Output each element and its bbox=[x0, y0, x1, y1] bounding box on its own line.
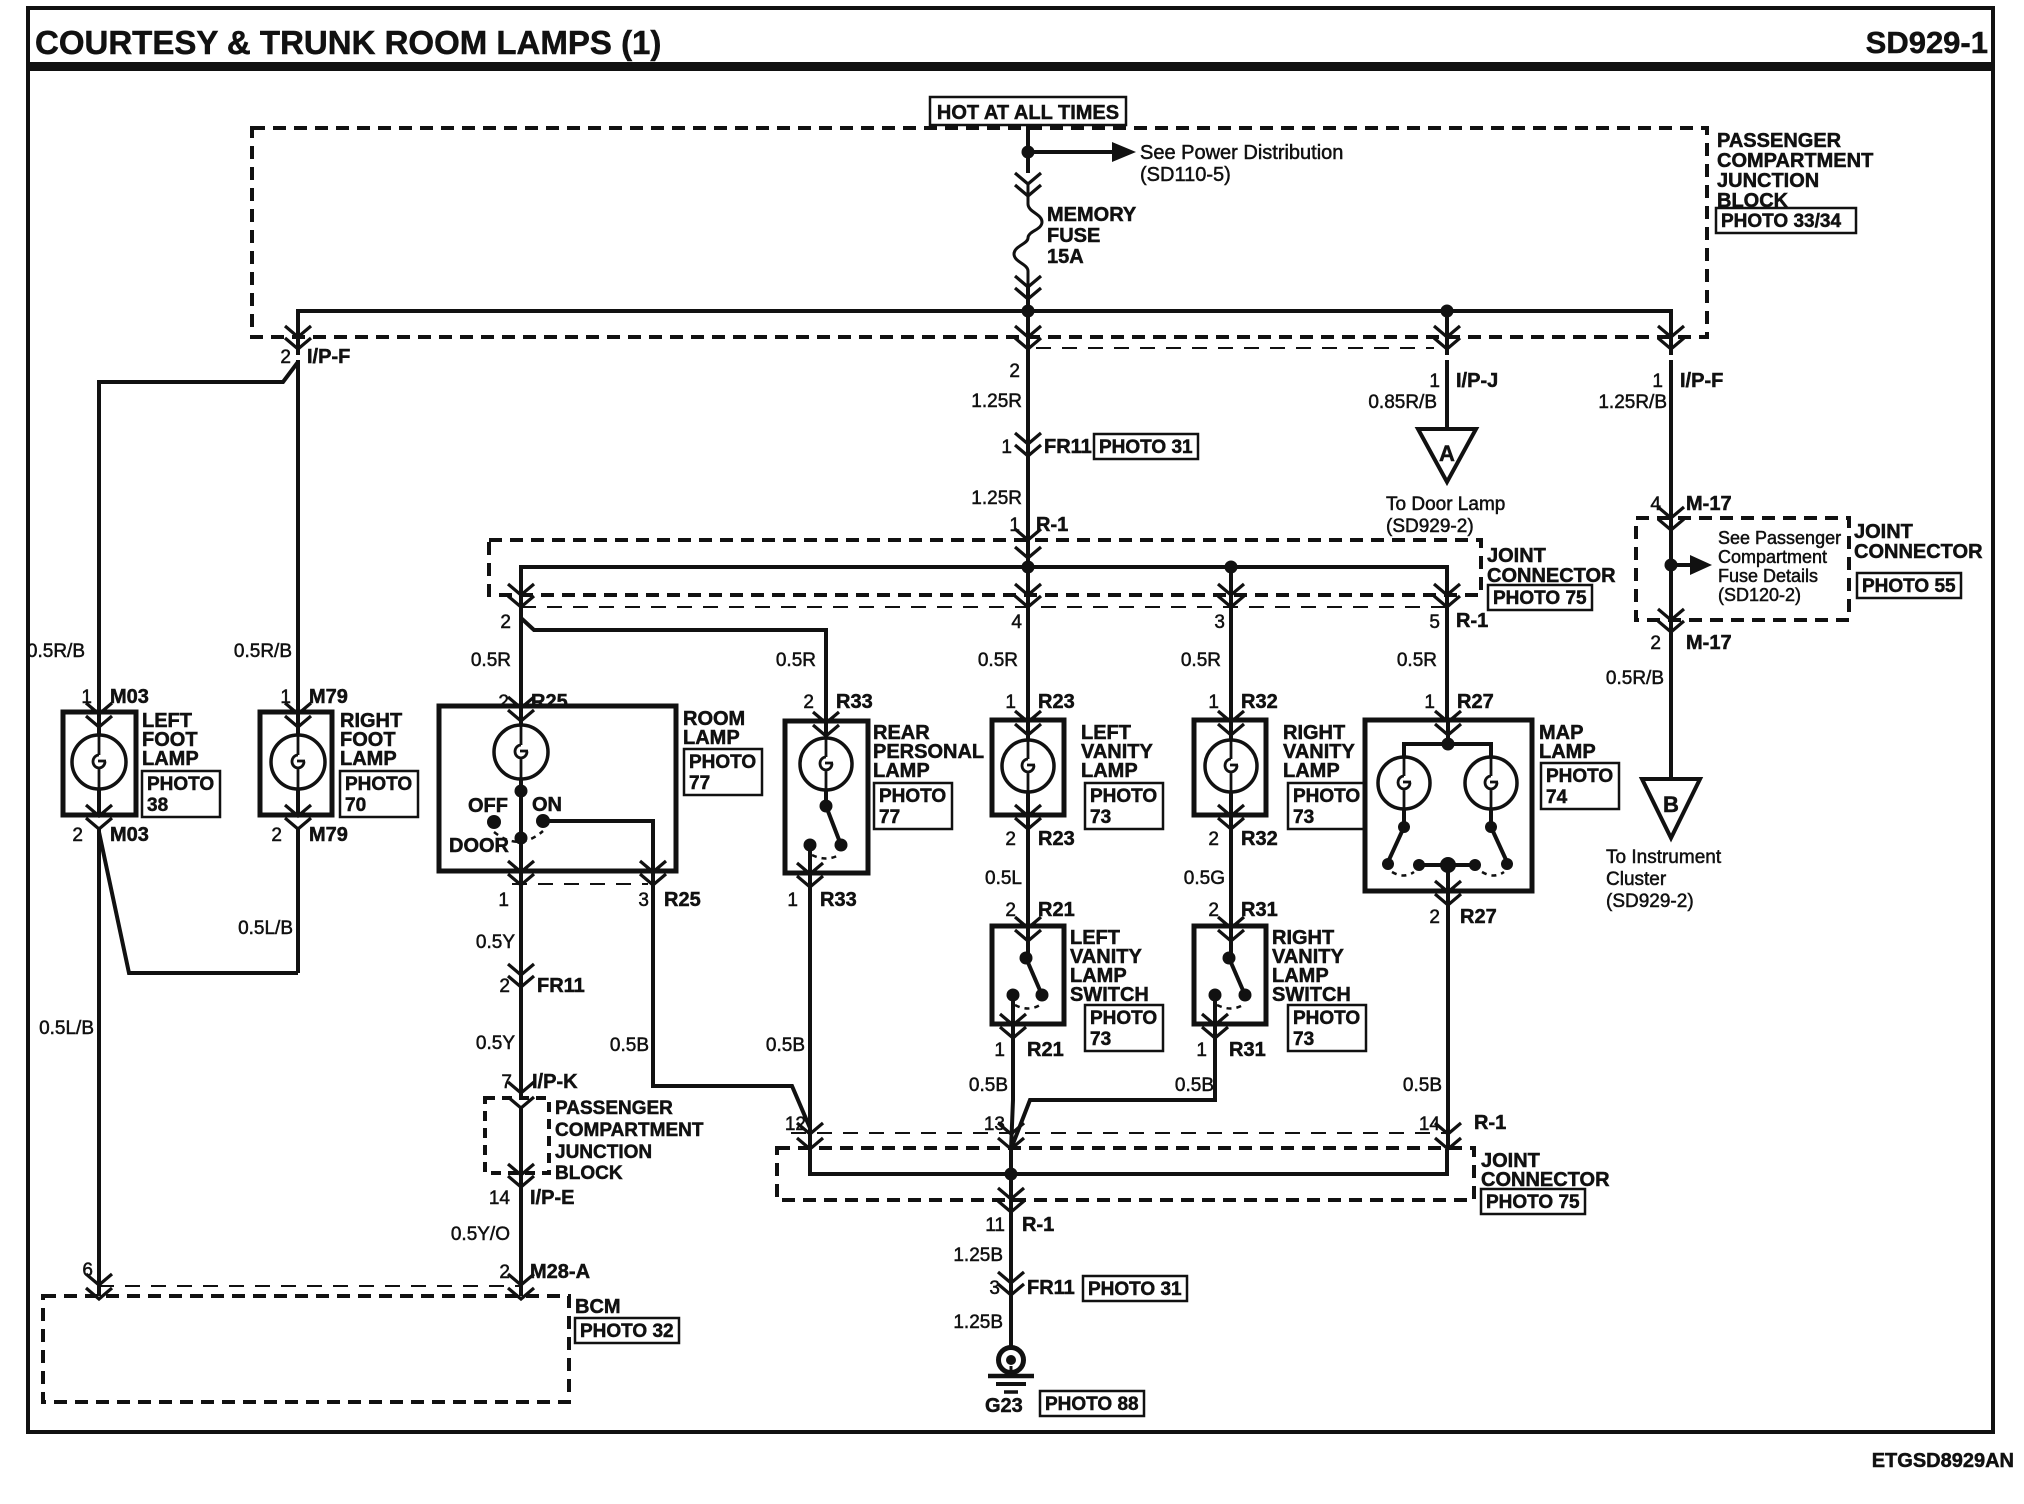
svg-text:0.5Y/O: 0.5Y/O bbox=[451, 1224, 510, 1245]
joint connector dashed box (bottom) bbox=[777, 1148, 1474, 1200]
svg-text:0.5G: 0.5G bbox=[1184, 868, 1225, 889]
room pin1 wire bbox=[519, 838, 523, 871]
svg-text:JOINT: JOINT bbox=[1854, 521, 1913, 543]
svg-text:SWITCH: SWITCH bbox=[1272, 984, 1351, 1006]
svg-text:1.25R/B: 1.25R/B bbox=[1598, 392, 1667, 413]
connector pin 3 (vanityR) bbox=[1218, 584, 1244, 607]
rear switch lever bbox=[826, 806, 841, 845]
wire pin11 drop bbox=[1009, 1149, 1013, 1212]
svg-text:LAMP: LAMP bbox=[1283, 760, 1340, 782]
svg-text:R21: R21 bbox=[1038, 899, 1075, 921]
svg-text:PHOTO 32: PHOTO 32 bbox=[580, 1321, 674, 1342]
svg-text:CONNECTOR: CONNECTOR bbox=[1854, 541, 1983, 563]
map common bar bbox=[1419, 863, 1475, 867]
svg-text:73: 73 bbox=[1293, 1029, 1314, 1050]
wire rear pin1 down bbox=[808, 873, 812, 1150]
svg-text:MEMORY: MEMORY bbox=[1047, 204, 1137, 226]
pcjb small dashed box bbox=[485, 1098, 549, 1173]
svg-text:R25: R25 bbox=[531, 691, 568, 713]
svg-text:73: 73 bbox=[1090, 1029, 1111, 1050]
lamp right foot M79 bbox=[260, 712, 332, 815]
svg-text:JUNCTION: JUNCTION bbox=[1717, 170, 1819, 192]
svg-text:PHOTO: PHOTO bbox=[147, 774, 214, 795]
rear switch arc bbox=[812, 855, 839, 859]
wire IPE to M28A bbox=[519, 1173, 523, 1296]
svg-text:I/P-J: I/P-J bbox=[1456, 370, 1498, 392]
wire right return diagonal bbox=[99, 832, 298, 973]
connector pin 7 I/P-K bbox=[508, 1082, 534, 1108]
map bulb feeds bbox=[1404, 744, 1491, 757]
svg-text:DOOR: DOOR bbox=[449, 835, 510, 857]
svg-text:LAMP: LAMP bbox=[1539, 741, 1596, 763]
connector pin 2 M28-A (BCM) bbox=[508, 1274, 534, 1299]
connector FR11 (1) bbox=[1015, 433, 1041, 456]
connector pin 12 bbox=[797, 1123, 823, 1149]
svg-text:1: 1 bbox=[1429, 371, 1440, 392]
svg-text:M03: M03 bbox=[110, 824, 149, 846]
wire LV lamp to switch bbox=[1026, 815, 1030, 926]
room ON wire to pin3 bbox=[543, 821, 653, 871]
svg-text:M-17: M-17 bbox=[1686, 493, 1732, 515]
svg-text:LAMP: LAMP bbox=[1081, 760, 1138, 782]
svg-text:M03: M03 bbox=[110, 686, 149, 708]
svg-text:COURTESY & TRUNK ROOM LAMPS (1: COURTESY & TRUNK ROOM LAMPS (1) bbox=[35, 24, 661, 61]
wire in pcjb bbox=[519, 1108, 523, 1173]
connector pin 2 (room) bbox=[508, 584, 534, 607]
svg-text:2: 2 bbox=[498, 692, 509, 713]
wire I/P-F left drop bbox=[296, 360, 300, 382]
svg-text:73: 73 bbox=[1090, 807, 1111, 828]
svg-text:See Power Distribution: See Power Distribution bbox=[1140, 142, 1343, 164]
room switch arc bbox=[494, 831, 543, 842]
svg-text:M79: M79 bbox=[309, 824, 348, 846]
svg-text:1.25R: 1.25R bbox=[971, 391, 1022, 412]
node R23 tap bbox=[1022, 561, 1035, 574]
photo 73 box (RV lamp) bbox=[1288, 783, 1366, 829]
connector FR11 (3) bbox=[998, 1272, 1024, 1295]
svg-text:To Instrument: To Instrument bbox=[1606, 847, 1722, 868]
svg-text:(SD120-2): (SD120-2) bbox=[1718, 585, 1801, 605]
svg-text:1: 1 bbox=[1001, 437, 1012, 458]
rear switch node bbox=[820, 800, 833, 813]
photo 77 box (rear) bbox=[874, 783, 952, 829]
svg-text:Compartment: Compartment bbox=[1718, 547, 1827, 567]
svg-text:M-17: M-17 bbox=[1686, 632, 1732, 654]
svg-text:FR11: FR11 bbox=[537, 975, 585, 997]
photo 75 box (top) bbox=[1488, 585, 1592, 610]
svg-text:SWITCH: SWITCH bbox=[1070, 984, 1149, 1006]
svg-text:1.25R: 1.25R bbox=[971, 488, 1022, 509]
photo 74 box bbox=[1541, 763, 1619, 809]
svg-text:0.5L/B: 0.5L/B bbox=[238, 918, 293, 939]
svg-text:15A: 15A bbox=[1047, 246, 1084, 268]
node bus I/P-J junction bbox=[1441, 305, 1454, 318]
wire LV switch down bbox=[1011, 1024, 1013, 1150]
svg-text:I/P-F: I/P-F bbox=[307, 346, 350, 368]
svg-text:PHOTO 75: PHOTO 75 bbox=[1493, 588, 1587, 609]
svg-text:6: 6 bbox=[82, 1260, 93, 1281]
connector pin 1 R-1 bbox=[1015, 529, 1041, 558]
map arcs bbox=[1392, 872, 1504, 876]
photo 73 box (RV sw) bbox=[1288, 1005, 1366, 1051]
rear lamp entry bbox=[813, 712, 839, 736]
bcm face dashed bbox=[99, 1285, 521, 1287]
svg-text:1.25B: 1.25B bbox=[953, 1245, 1003, 1266]
svg-text:0.5L/B: 0.5L/B bbox=[39, 1018, 94, 1039]
svg-text:M28-A: M28-A bbox=[530, 1261, 590, 1283]
joint conn face dashed bbox=[521, 606, 1447, 608]
svg-text:ON: ON bbox=[532, 794, 562, 816]
wire to right vanity bbox=[1229, 607, 1233, 720]
svg-text:14: 14 bbox=[489, 1188, 511, 1209]
see power distribution arrow bbox=[1028, 150, 1112, 154]
svg-text:PHOTO 31: PHOTO 31 bbox=[1099, 437, 1193, 458]
svg-text:3: 3 bbox=[989, 1278, 1000, 1299]
svg-text:CONNECTOR: CONNECTOR bbox=[1481, 1169, 1610, 1191]
svg-text:R31: R31 bbox=[1229, 1039, 1266, 1061]
svg-text:M79: M79 bbox=[309, 686, 348, 708]
connector pin 5 R-1 bbox=[1434, 584, 1460, 607]
svg-text:PHOTO: PHOTO bbox=[345, 774, 412, 795]
photo 31 box (1) bbox=[1094, 434, 1198, 459]
triangle B to instrument cluster bbox=[1642, 779, 1700, 838]
svg-text:I/P-F: I/P-F bbox=[1680, 370, 1723, 392]
photo 77 box (room) bbox=[684, 749, 762, 795]
svg-text:PHOTO: PHOTO bbox=[1546, 766, 1613, 787]
svg-text:0.5R: 0.5R bbox=[471, 650, 511, 671]
svg-text:2: 2 bbox=[72, 825, 83, 846]
wire IPJ to A bbox=[1445, 360, 1449, 429]
lamp left vanity R23 bbox=[992, 720, 1064, 815]
photo 73 box (LV sw) bbox=[1085, 1005, 1163, 1051]
svg-text:3: 3 bbox=[638, 890, 649, 911]
lamp right vanity R32 bbox=[1194, 720, 1266, 815]
svg-text:0.5B: 0.5B bbox=[610, 1035, 649, 1056]
svg-text:COMPARTMENT: COMPARTMENT bbox=[1717, 150, 1873, 172]
svg-text:BCM: BCM bbox=[575, 1296, 621, 1318]
wire FR11 to IPK bbox=[519, 980, 523, 1098]
photo 38 box bbox=[142, 771, 220, 817]
wire right foot drop bbox=[296, 362, 300, 712]
svg-text:R25: R25 bbox=[664, 889, 701, 911]
wire joint bus (bottom) bbox=[810, 1149, 1447, 1174]
svg-text:2: 2 bbox=[280, 347, 291, 368]
svg-text:JUNCTION: JUNCTION bbox=[555, 1142, 652, 1163]
photo 73 box (LV lamp) bbox=[1085, 783, 1163, 829]
svg-text:LAMP: LAMP bbox=[340, 748, 397, 770]
wire room pin3 route bbox=[653, 871, 810, 1128]
node bus-fuse junction bbox=[1022, 305, 1035, 318]
svg-text:0.5Y: 0.5Y bbox=[476, 932, 515, 953]
rear contact dot bbox=[804, 839, 817, 852]
connector pin 14 I/P-E bbox=[508, 1164, 534, 1187]
svg-text:1: 1 bbox=[1208, 692, 1219, 713]
connector pin 1 I/P-F (right) bbox=[1658, 326, 1684, 349]
connector pin 13 bbox=[998, 1123, 1024, 1149]
wire RV lamp to switch bbox=[1229, 815, 1233, 926]
svg-text:1: 1 bbox=[1196, 1040, 1207, 1061]
switch left vanity R21 bbox=[992, 926, 1064, 1024]
wire R32 drop bbox=[1229, 567, 1233, 612]
svg-text:2: 2 bbox=[271, 825, 282, 846]
svg-text:PHOTO 75: PHOTO 75 bbox=[1486, 1192, 1580, 1213]
svg-text:2: 2 bbox=[1009, 361, 1020, 382]
fuse details arrow bbox=[1671, 563, 1690, 567]
bcm dashed box bbox=[43, 1296, 569, 1402]
wire R23 drop bbox=[1026, 567, 1030, 612]
map bulb stubs bbox=[1402, 809, 1406, 827]
wire room pin1 down bbox=[519, 871, 523, 992]
svg-text:0.5R: 0.5R bbox=[1181, 650, 1221, 671]
svg-text:HOT AT ALL TIMES: HOT AT ALL TIMES bbox=[937, 102, 1119, 124]
svg-text:1: 1 bbox=[994, 1040, 1005, 1061]
svg-text:LAMP: LAMP bbox=[142, 748, 199, 770]
node M-17 bbox=[1665, 559, 1678, 572]
svg-text:0.5R/B: 0.5R/B bbox=[27, 641, 85, 662]
svg-text:2: 2 bbox=[803, 692, 814, 713]
svg-text:JOINT: JOINT bbox=[1487, 545, 1546, 567]
joint conn face dashed (bottom) bbox=[791, 1132, 1448, 1134]
svg-text:LAMP: LAMP bbox=[873, 760, 930, 782]
svg-text:R31: R31 bbox=[1241, 899, 1278, 921]
switch right vanity R31 bbox=[1194, 926, 1266, 1024]
svg-text:2: 2 bbox=[1429, 907, 1440, 928]
map bulb left bbox=[1378, 757, 1430, 809]
svg-text:2: 2 bbox=[499, 976, 510, 997]
lamp rear personal R33 box bbox=[785, 721, 868, 873]
photo 88 box bbox=[1040, 1391, 1144, 1416]
wire to map lamp bbox=[1445, 600, 1449, 720]
svg-text:PASSENGER: PASSENGER bbox=[555, 1098, 673, 1119]
wire RV switch route bbox=[1011, 1024, 1215, 1149]
wire left branch bbox=[99, 362, 298, 712]
svg-text:R-1: R-1 bbox=[1036, 514, 1068, 536]
svg-text:G23: G23 bbox=[985, 1395, 1023, 1417]
connector pin 1 I/P-J bbox=[1434, 326, 1460, 349]
svg-text:PHOTO 55: PHOTO 55 bbox=[1862, 576, 1956, 597]
wire hot feed bbox=[1026, 125, 1030, 173]
svg-text:2: 2 bbox=[500, 612, 511, 633]
svg-text:1: 1 bbox=[787, 890, 798, 911]
svg-text:0.5R: 0.5R bbox=[776, 650, 816, 671]
photo 33/34 box bbox=[1716, 208, 1856, 233]
connector pin 2 I/P-F (left) bbox=[285, 326, 311, 349]
wire top bus bbox=[298, 311, 1671, 355]
svg-text:0.5Y: 0.5Y bbox=[476, 1033, 515, 1054]
svg-text:See Passenger: See Passenger bbox=[1718, 528, 1841, 548]
svg-text:(SD929-2): (SD929-2) bbox=[1606, 891, 1694, 912]
wire map down bbox=[1446, 891, 1450, 1150]
svg-text:0.85R/B: 0.85R/B bbox=[1368, 392, 1437, 413]
svg-text:11: 11 bbox=[985, 1215, 1005, 1236]
svg-text:Fuse Details: Fuse Details bbox=[1718, 566, 1818, 586]
wire FR11 to ground bbox=[1009, 1283, 1013, 1348]
rear pin exit bbox=[797, 863, 823, 887]
svg-text:5: 5 bbox=[1429, 612, 1440, 633]
wire FR11 to R-1 bbox=[1026, 448, 1030, 567]
svg-text:74: 74 bbox=[1546, 787, 1568, 808]
see fuse details dashed box bbox=[1636, 518, 1849, 620]
svg-text:LAMP: LAMP bbox=[683, 727, 740, 749]
wire right return bbox=[296, 827, 300, 973]
svg-text:B: B bbox=[1663, 792, 1679, 817]
fuse MEMORY FUSE 15A bbox=[1015, 173, 1041, 196]
svg-text:77: 77 bbox=[689, 773, 710, 794]
wire joint bus (top) bbox=[521, 567, 1447, 600]
svg-text:OFF: OFF bbox=[468, 795, 508, 817]
node pin11 tap bbox=[1005, 1168, 1018, 1181]
connector pin 4 (vanityL) bbox=[1015, 584, 1041, 607]
ground G23 symbol bbox=[999, 1348, 1024, 1373]
room switch lever bbox=[519, 791, 523, 838]
svg-text:To Door Lamp: To Door Lamp bbox=[1386, 494, 1505, 515]
svg-text:I/P-E: I/P-E bbox=[530, 1187, 574, 1209]
svg-text:R32: R32 bbox=[1241, 691, 1278, 713]
svg-text:(SD110-5): (SD110-5) bbox=[1140, 164, 1231, 186]
svg-text:R33: R33 bbox=[820, 889, 857, 911]
node power junction bbox=[1022, 146, 1035, 159]
title separator rule bbox=[28, 62, 1993, 71]
svg-text:R27: R27 bbox=[1457, 691, 1494, 713]
rear pin1 wire bbox=[808, 845, 812, 873]
lamp room R25 box bbox=[439, 706, 676, 871]
room pin exits bbox=[508, 861, 534, 885]
HOT AT ALL TIMES label box bbox=[930, 97, 1126, 125]
svg-text:2: 2 bbox=[1005, 829, 1016, 850]
connector pin 4 M-17 bbox=[1658, 507, 1684, 530]
connector pin 11 R-1 bbox=[998, 1188, 1024, 1212]
svg-text:1: 1 bbox=[1652, 371, 1663, 392]
svg-text:0.5R/B: 0.5R/B bbox=[234, 641, 292, 662]
joint connector dashed box (top) bbox=[489, 540, 1481, 595]
connector pin 2 (center) bbox=[1015, 326, 1041, 349]
photo 32 box bbox=[575, 1318, 679, 1343]
map levers bbox=[1388, 827, 1404, 862]
photo 31 box (2) bbox=[1083, 1276, 1187, 1301]
lamp map R27 box bbox=[1365, 720, 1532, 891]
svg-text:PHOTO: PHOTO bbox=[689, 752, 756, 773]
svg-text:PHOTO 88: PHOTO 88 bbox=[1045, 1394, 1139, 1415]
svg-text:R23: R23 bbox=[1038, 828, 1075, 850]
svg-text:R-1: R-1 bbox=[1022, 1214, 1054, 1236]
svg-text:(SD929-2): (SD929-2) bbox=[1386, 516, 1474, 537]
svg-text:1.25B: 1.25B bbox=[953, 1312, 1003, 1333]
svg-text:12: 12 bbox=[785, 1114, 806, 1135]
svg-text:0.5B: 0.5B bbox=[766, 1035, 805, 1056]
wire left return bbox=[97, 827, 101, 1296]
photo 70 box bbox=[340, 771, 418, 817]
svg-text:1: 1 bbox=[1424, 692, 1435, 713]
svg-text:R32: R32 bbox=[1241, 828, 1278, 850]
svg-text:0.5L: 0.5L bbox=[985, 868, 1022, 889]
svg-text:R21: R21 bbox=[1027, 1039, 1064, 1061]
triangle A to door lamp bbox=[1418, 429, 1476, 482]
room switch OFF dot bbox=[487, 815, 501, 829]
svg-text:0.5R: 0.5R bbox=[978, 650, 1018, 671]
wire to room lamp bbox=[519, 600, 523, 706]
room lamp switch node bbox=[515, 785, 528, 798]
svg-text:BLOCK: BLOCK bbox=[555, 1163, 623, 1184]
svg-text:R23: R23 bbox=[1038, 691, 1075, 713]
svg-text:FR11: FR11 bbox=[1044, 436, 1092, 458]
svg-text:3: 3 bbox=[1214, 612, 1225, 633]
svg-text:4: 4 bbox=[1011, 612, 1022, 633]
room lamp entry bbox=[508, 697, 534, 721]
svg-text:COMPARTMENT: COMPARTMENT bbox=[555, 1120, 704, 1141]
wire in M-17 box bbox=[1669, 518, 1673, 632]
room switch ON dot bbox=[536, 814, 550, 828]
svg-text:0.5R/B: 0.5R/B bbox=[1606, 668, 1664, 689]
wire pin2 drop bbox=[1026, 311, 1030, 360]
room switch DOOR dot bbox=[515, 832, 528, 845]
svg-text:PASSENGER: PASSENGER bbox=[1717, 130, 1842, 152]
photo 75 box (bottom) bbox=[1481, 1189, 1585, 1214]
svg-text:1: 1 bbox=[1005, 692, 1016, 713]
svg-text:PHOTO: PHOTO bbox=[1293, 1008, 1360, 1029]
wire branch to rear lamp bbox=[521, 618, 826, 721]
svg-text:0.5B: 0.5B bbox=[969, 1075, 1008, 1096]
svg-text:FUSE: FUSE bbox=[1047, 225, 1100, 247]
wire pin11 to FR11 bbox=[1009, 1199, 1013, 1295]
svg-text:38: 38 bbox=[147, 795, 168, 816]
connector pin 6 (BCM) bbox=[86, 1274, 112, 1299]
svg-text:PHOTO 31: PHOTO 31 bbox=[1088, 1279, 1182, 1300]
svg-text:Cluster: Cluster bbox=[1606, 869, 1667, 890]
svg-text:0.5B: 0.5B bbox=[1403, 1075, 1442, 1096]
svg-text:4: 4 bbox=[1650, 494, 1661, 515]
map node top bbox=[1442, 738, 1455, 751]
map bulb right bbox=[1465, 757, 1517, 809]
svg-text:2: 2 bbox=[499, 1262, 510, 1283]
svg-text:2: 2 bbox=[1650, 633, 1661, 654]
svg-text:R-1: R-1 bbox=[1456, 610, 1488, 632]
svg-text:PHOTO: PHOTO bbox=[1293, 786, 1360, 807]
svg-text:PHOTO: PHOTO bbox=[1090, 1008, 1157, 1029]
map contact dots bbox=[1398, 821, 1410, 833]
svg-text:CONNECTOR: CONNECTOR bbox=[1487, 565, 1616, 587]
svg-text:I/P-K: I/P-K bbox=[532, 1071, 578, 1093]
lamp left foot M03 bbox=[63, 712, 136, 815]
photo 55 box bbox=[1857, 573, 1961, 598]
svg-text:77: 77 bbox=[879, 807, 900, 828]
svg-text:R-1: R-1 bbox=[1474, 1112, 1506, 1134]
map entry bbox=[1435, 711, 1461, 735]
svg-text:PHOTO: PHOTO bbox=[1090, 786, 1157, 807]
svg-text:70: 70 bbox=[345, 795, 366, 816]
map lever dots bbox=[1382, 858, 1394, 870]
svg-text:FR11: FR11 bbox=[1027, 1277, 1075, 1299]
svg-text:73: 73 bbox=[1293, 807, 1314, 828]
map pin exit bbox=[1435, 881, 1461, 905]
svg-text:2: 2 bbox=[1208, 829, 1219, 850]
connector FR11 (2) bbox=[508, 964, 534, 987]
connector pin 14 R-1 bbox=[1435, 1123, 1461, 1149]
wire IPF right bbox=[1669, 360, 1673, 518]
room face dashed bbox=[512, 883, 648, 885]
svg-text:R33: R33 bbox=[836, 691, 873, 713]
svg-text:1: 1 bbox=[498, 890, 509, 911]
connector face dashed line bbox=[1036, 347, 1434, 349]
svg-text:R27: R27 bbox=[1460, 906, 1497, 928]
svg-text:PHOTO: PHOTO bbox=[879, 786, 946, 807]
rear lever dot bbox=[835, 839, 848, 852]
svg-text:SD929-1: SD929-1 bbox=[1866, 25, 1988, 60]
wire I/P-J drop bbox=[1445, 311, 1449, 355]
wire to left vanity bbox=[1026, 607, 1030, 720]
wire fuse to FR11 bbox=[1026, 360, 1030, 448]
svg-text:A: A bbox=[1439, 441, 1455, 466]
svg-text:ETGSD8929AN: ETGSD8929AN bbox=[1872, 1450, 2014, 1472]
